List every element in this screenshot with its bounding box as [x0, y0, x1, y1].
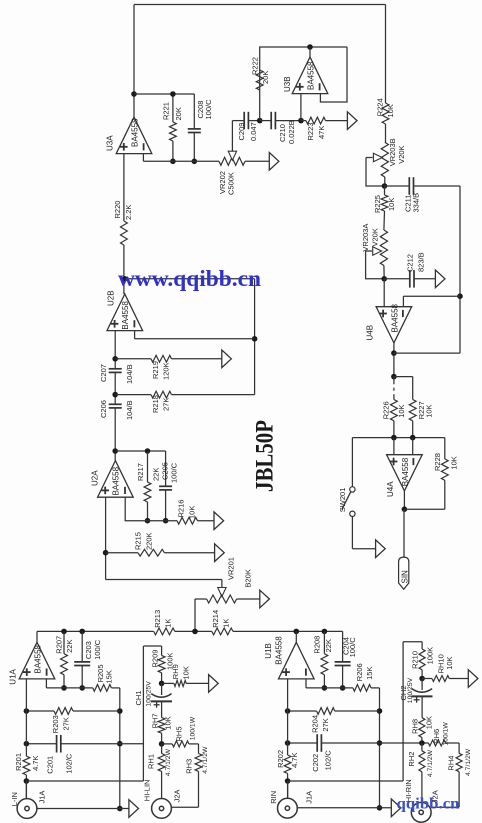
svg-text:22K: 22K	[324, 639, 333, 652]
svg-text:R214: R214	[211, 610, 220, 628]
svg-text:U2A: U2A	[91, 470, 100, 486]
svg-text:R220: R220	[113, 201, 122, 219]
svg-text:C205: C205	[161, 462, 170, 480]
svg-text:U2B: U2B	[107, 290, 116, 306]
svg-text:15K: 15K	[365, 667, 374, 680]
svg-text:RH4: RH4	[447, 756, 456, 771]
svg-text:R228: R228	[433, 453, 442, 471]
svg-text:102/C: 102/C	[65, 753, 74, 774]
svg-text:www.qqibb.cn: www.qqibb.cn	[118, 266, 261, 291]
svg-text:R201: R201	[14, 753, 23, 771]
svg-text:SIN: SIN	[400, 570, 409, 584]
svg-text:J2A: J2A	[172, 789, 181, 802]
svg-text:C203: C203	[84, 641, 93, 659]
svg-text:100/25V: 100/25V	[145, 681, 152, 707]
svg-text:RIN: RIN	[269, 791, 278, 804]
svg-text:HI-LIN: HI-LIN	[143, 780, 152, 802]
svg-text:4.7K: 4.7K	[290, 752, 299, 767]
svg-text:V20K: V20K	[397, 145, 406, 163]
svg-text:100/1W: 100/1W	[189, 716, 196, 740]
svg-text:1K: 1K	[164, 619, 173, 628]
svg-text:100K: 100K	[426, 647, 435, 665]
svg-text:U1A: U1A	[8, 668, 17, 684]
svg-text:0.047: 0.047	[249, 122, 258, 141]
svg-text:22K: 22K	[65, 640, 74, 653]
svg-text:220K: 220K	[145, 532, 154, 550]
svg-text:R226: R226	[382, 401, 391, 419]
svg-text:R209: R209	[151, 650, 160, 668]
svg-text:U1B: U1B	[264, 643, 273, 659]
svg-text:BA4558: BA4558	[112, 466, 121, 495]
svg-text:10K: 10K	[188, 506, 197, 519]
svg-text:100/25V: 100/25V	[407, 677, 414, 703]
svg-text:120K: 120K	[162, 362, 171, 380]
svg-text:BA4558: BA4558	[34, 644, 43, 673]
svg-text:RH2: RH2	[407, 752, 416, 767]
svg-text:823/B: 823/B	[417, 252, 426, 272]
svg-text:L-IN: L-IN	[10, 792, 19, 806]
svg-text:R217: R217	[136, 463, 145, 481]
svg-text:U3A: U3A	[106, 135, 115, 151]
svg-text:15K: 15K	[105, 670, 114, 683]
svg-text:R224: R224	[376, 98, 385, 116]
svg-text:C207: C207	[99, 364, 108, 382]
svg-text:U4B: U4B	[366, 325, 375, 341]
svg-text:R223: R223	[306, 123, 315, 141]
svg-text:C212: C212	[406, 254, 415, 272]
svg-text:R215: R215	[134, 532, 143, 550]
svg-text:4.7/1/2W: 4.7/1/2W	[165, 748, 172, 776]
svg-text:U4A: U4A	[386, 481, 395, 497]
svg-text:BA4558: BA4558	[391, 303, 400, 332]
svg-text:R210: R210	[411, 651, 420, 669]
svg-text:qqibb.cn: qqibb.cn	[397, 796, 460, 813]
svg-text:BA4558: BA4558	[131, 118, 140, 147]
svg-text:J1A: J1A	[38, 791, 47, 804]
svg-text:104/B: 104/B	[125, 364, 134, 384]
svg-text:C202: C202	[311, 754, 320, 772]
svg-text:JBL50P: JBL50P	[252, 420, 279, 492]
svg-text:0.022B: 0.022B	[287, 120, 296, 144]
svg-text:RH3: RH3	[184, 759, 193, 774]
svg-text:CH1: CH1	[134, 690, 143, 705]
svg-text:4.7/1/2W: 4.7/1/2W	[427, 749, 434, 777]
svg-text:27K: 27K	[62, 717, 71, 730]
svg-text:U3B: U3B	[283, 76, 292, 92]
svg-text:20K: 20K	[174, 107, 183, 120]
svg-text:27K: 27K	[162, 398, 171, 411]
svg-text:100/1W: 100/1W	[443, 722, 450, 746]
svg-text:4.7/1/2W: 4.7/1/2W	[202, 746, 209, 774]
svg-text:B20K: B20K	[244, 569, 253, 587]
svg-text:RH9: RH9	[171, 664, 180, 679]
svg-text:RH5: RH5	[175, 726, 184, 741]
svg-text:22K: 22K	[152, 468, 161, 481]
svg-text:20K: 20K	[261, 71, 270, 84]
svg-text:BA4558: BA4558	[307, 61, 316, 90]
svg-text:R206: R206	[355, 663, 364, 681]
svg-text:104/B: 104/B	[125, 400, 134, 420]
svg-text:R222: R222	[251, 57, 260, 75]
svg-text:BA4558: BA4558	[275, 636, 284, 665]
svg-text:10K: 10K	[397, 404, 406, 417]
svg-text:R213: R213	[153, 610, 162, 628]
svg-text:27K: 27K	[321, 718, 330, 731]
svg-text:10K: 10K	[425, 716, 434, 729]
svg-text:R208: R208	[313, 636, 322, 654]
svg-text:C209: C209	[237, 123, 246, 141]
svg-text:R219: R219	[151, 361, 160, 379]
svg-text:BA4558: BA4558	[121, 301, 130, 330]
svg-text:47K: 47K	[317, 126, 326, 139]
svg-text:100/C: 100/C	[204, 99, 213, 120]
svg-text:4.7K: 4.7K	[31, 755, 40, 770]
svg-text:V20K: V20K	[371, 228, 380, 246]
svg-text:RH1: RH1	[147, 754, 156, 769]
svg-text:10K: 10K	[163, 716, 172, 729]
svg-text:VR203B: VR203B	[388, 138, 397, 166]
svg-text:100/C: 100/C	[348, 637, 357, 658]
svg-text:102/C: 102/C	[324, 750, 333, 771]
svg-text:RH6: RH6	[432, 729, 441, 744]
svg-text:R218: R218	[151, 395, 160, 413]
svg-text:R204: R204	[311, 715, 320, 733]
svg-text:1K: 1K	[222, 619, 231, 628]
svg-text:C210: C210	[278, 124, 287, 142]
svg-text:VR203A: VR203A	[361, 224, 370, 252]
svg-text:10K: 10K	[386, 104, 395, 117]
svg-text:10K: 10K	[425, 404, 434, 417]
svg-text:R216: R216	[177, 500, 186, 518]
svg-text:4.7/1/2W: 4.7/1/2W	[465, 748, 472, 776]
svg-text:C201: C201	[46, 756, 55, 774]
svg-text:SW201: SW201	[338, 488, 347, 513]
svg-text:10K: 10K	[181, 666, 190, 679]
svg-text:100/C: 100/C	[93, 639, 102, 660]
svg-text:R203: R203	[51, 715, 60, 733]
svg-text:100/C: 100/C	[170, 462, 179, 483]
svg-text:10K: 10K	[450, 456, 459, 469]
svg-text:R202: R202	[276, 750, 285, 768]
svg-text:VR201: VR201	[227, 557, 236, 580]
svg-text:R207: R207	[55, 636, 64, 654]
svg-text:10K: 10K	[445, 656, 454, 669]
svg-text:10K: 10K	[387, 198, 396, 211]
svg-text:C206: C206	[99, 400, 108, 418]
svg-text:334/B: 334/B	[412, 193, 421, 213]
svg-text:C500K: C500K	[227, 172, 236, 195]
svg-text:BA4558: BA4558	[401, 457, 410, 486]
svg-text:R221: R221	[162, 102, 171, 120]
svg-text:J1A: J1A	[304, 791, 313, 804]
svg-text:RH8: RH8	[411, 719, 420, 734]
svg-text:RH7: RH7	[151, 713, 160, 728]
svg-text:2.2K: 2.2K	[124, 205, 133, 220]
svg-text:R225: R225	[373, 195, 382, 213]
